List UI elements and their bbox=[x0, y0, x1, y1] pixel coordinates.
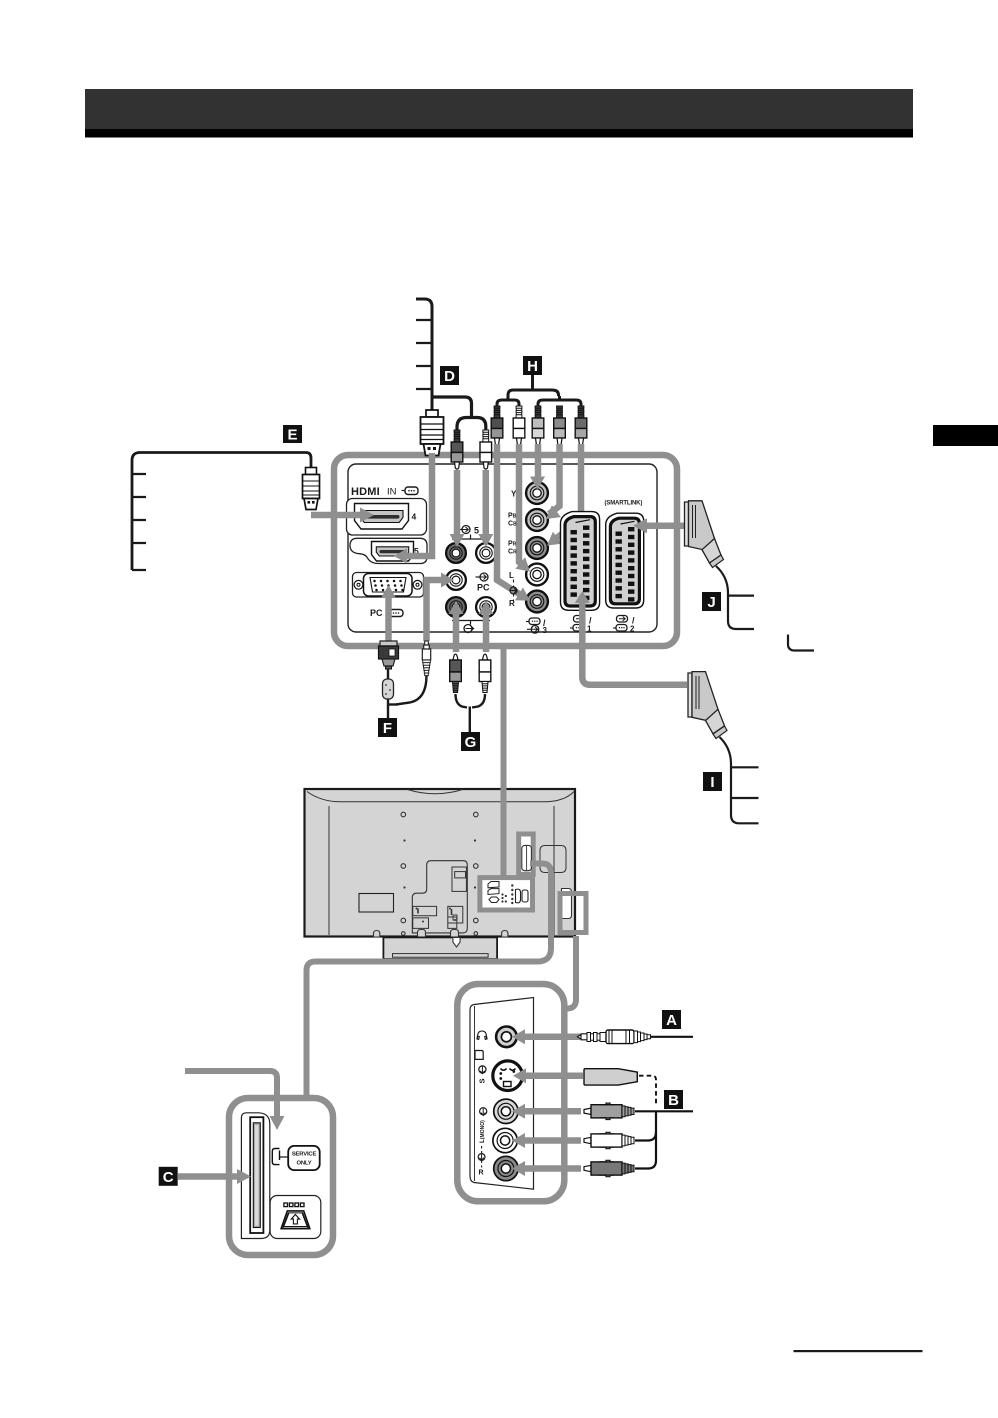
wire arrow A to headphone jack bbox=[512, 1029, 580, 1044]
svg-text:C: C bbox=[163, 1169, 174, 1186]
wire arrow F audio to PC audio jack bbox=[427, 573, 455, 642]
component plug Pb (H) bbox=[554, 406, 566, 445]
label D bbox=[440, 366, 459, 385]
audio out jack white bbox=[476, 597, 496, 617]
audio out jack dark bbox=[446, 597, 466, 617]
audio out label bbox=[452, 621, 490, 633]
video plug B yellow bbox=[584, 1103, 693, 1132]
side panel face bbox=[470, 998, 534, 1190]
AV3 label bbox=[526, 618, 548, 635]
svg-text:Y: Y bbox=[511, 490, 517, 499]
wire arrow D to HDMI5 bbox=[394, 453, 432, 564]
wire flap to side panel bbox=[564, 936, 576, 1009]
TV rear body bbox=[305, 789, 576, 937]
G cable stem bbox=[469, 707, 471, 733]
wire arrow G white plug to out jack bbox=[479, 601, 494, 652]
label C bbox=[159, 1167, 178, 1186]
svg-text:L: L bbox=[509, 571, 514, 580]
component video Pr jack bbox=[526, 537, 548, 559]
component video Y jack bbox=[526, 482, 548, 504]
svg-text:PB: PB bbox=[508, 513, 517, 520]
label E bbox=[283, 425, 302, 444]
wire TV to CAM module bbox=[307, 864, 552, 1099]
VGA cable plug F bbox=[379, 641, 399, 718]
side panel frame bbox=[457, 984, 564, 1201]
svg-text:F: F bbox=[383, 720, 392, 737]
PC IN label bbox=[370, 608, 403, 618]
headphone jack bbox=[496, 1027, 517, 1048]
PC audio jack bbox=[446, 570, 466, 590]
video in jack bbox=[494, 1099, 518, 1123]
video in label bbox=[480, 1108, 487, 1116]
wire H plug2 to L jack bbox=[515, 444, 530, 572]
headphone plug A bbox=[578, 1030, 694, 1044]
svg-text:5: 5 bbox=[474, 526, 479, 536]
PC IN VGA connector bbox=[353, 573, 424, 598]
page edge index tab bbox=[933, 425, 998, 446]
wire H plug3 to Y jack bbox=[530, 444, 545, 490]
TV AV callout box bbox=[480, 878, 533, 910]
component plug L white (H) bbox=[513, 406, 525, 445]
I cable and bundle ticks bbox=[720, 737, 759, 823]
D cable branch wire bbox=[432, 397, 486, 430]
component plug Y (H) bbox=[532, 406, 544, 445]
audio R plug B red bbox=[584, 1132, 656, 1177]
L MONO label bbox=[478, 1120, 486, 1177]
HDMI port 4 connector bbox=[355, 504, 417, 530]
SCART 2 label bbox=[613, 616, 635, 634]
HDMI plug E bbox=[303, 453, 320, 510]
J cable and bundle ticks bbox=[716, 566, 754, 629]
HDMI port 5 outline bbox=[350, 538, 427, 563]
wire arrow E to HDMI4 bbox=[311, 508, 374, 523]
audio L jack bbox=[493, 1128, 517, 1152]
svg-text:ONLY: ONLY bbox=[296, 1161, 311, 1167]
SCART 1 socket bbox=[561, 512, 600, 611]
wire H plug5 to Pr jack bbox=[547, 444, 581, 546]
HDMI plug D bbox=[421, 410, 444, 456]
audio in 5 label bbox=[452, 526, 490, 540]
label J bbox=[702, 592, 721, 611]
TV side panel flap callout bbox=[560, 889, 586, 933]
audio L plug B white bbox=[584, 1132, 656, 1149]
wire arrow white plug to jack bbox=[478, 470, 493, 547]
audio in 5 jack dark bbox=[446, 543, 466, 563]
svg-text:A: A bbox=[666, 1012, 677, 1029]
label G bbox=[461, 732, 480, 751]
svg-text:PC: PC bbox=[370, 608, 383, 618]
svg-text:IN: IN bbox=[387, 487, 397, 498]
SCART 2 socket bbox=[606, 513, 644, 608]
CAM module frame bbox=[229, 1098, 333, 1255]
audio plug dark (D pair) bbox=[451, 430, 463, 469]
wire arrow dark plug to jack bbox=[450, 470, 465, 547]
CAM card slot bbox=[250, 1117, 263, 1233]
wire arrow video plug to jack bbox=[512, 1104, 581, 1119]
H cable bracket wires bbox=[497, 375, 581, 406]
component labels bbox=[508, 490, 517, 609]
audio out plug white G bbox=[472, 654, 491, 707]
label A bbox=[662, 1010, 681, 1029]
label B bbox=[664, 1090, 683, 1109]
wire arrow C to card slot bbox=[178, 1169, 251, 1184]
HDMI IN label bbox=[351, 486, 418, 498]
SMARTLINK label bbox=[605, 501, 643, 507]
wire arrow S video plug to jack bbox=[513, 1068, 583, 1083]
svg-text:D: D bbox=[444, 368, 455, 385]
CAM eject icon bbox=[270, 1196, 321, 1239]
svg-text:S: S bbox=[478, 1078, 487, 1083]
wire panel to TV AV box bbox=[501, 648, 507, 878]
label I bbox=[703, 772, 722, 791]
cable bundle bracket E bbox=[132, 453, 306, 571]
audio plug white (D pair) bbox=[480, 430, 492, 469]
TV mount bracket plate bbox=[412, 861, 467, 933]
svg-text:3: 3 bbox=[543, 626, 548, 635]
wire arrow J to SCART2 bbox=[633, 518, 684, 533]
header title bar bbox=[85, 89, 913, 138]
wire leader into CAM slot cover bbox=[185, 1071, 285, 1130]
svg-text:B: B bbox=[668, 1092, 679, 1109]
card icon bbox=[475, 1051, 483, 1060]
wire H plug4 to Pb jack bbox=[546, 444, 561, 519]
CAM eject clip bbox=[272, 1149, 279, 1165]
HDMI port 4 outline bbox=[347, 499, 427, 536]
HDMI port 5 connector bbox=[372, 542, 420, 562]
headphone icon bbox=[477, 1031, 487, 1039]
wire arrow G dark plug to out jack bbox=[449, 601, 464, 652]
wire arrow audio L plug to jack bbox=[512, 1133, 581, 1148]
TV stand foot tabs bbox=[374, 930, 508, 938]
bottom right rule line bbox=[794, 1350, 923, 1352]
component audio L jack bbox=[526, 564, 548, 586]
svg-text:HDMI: HDMI bbox=[351, 486, 380, 498]
svg-text:I: I bbox=[710, 774, 714, 791]
TV label plate bbox=[359, 894, 394, 913]
TV stand base bbox=[383, 937, 497, 959]
svg-text:2: 2 bbox=[630, 625, 635, 634]
component plug R (H) bbox=[491, 406, 503, 445]
svg-text:SERVICE: SERVICE bbox=[292, 1152, 317, 1158]
svg-text:H: H bbox=[527, 358, 538, 375]
component audio R jack bbox=[526, 591, 548, 613]
svg-text:L(MONO): L(MONO) bbox=[479, 1120, 486, 1143]
svg-text:(SMARTLINK): (SMARTLINK) bbox=[605, 501, 643, 507]
svg-text:E: E bbox=[287, 427, 297, 444]
PC audio label bbox=[476, 573, 491, 593]
S video jack bbox=[493, 1061, 523, 1091]
rear panel inner plate bbox=[348, 464, 657, 632]
component plug Pr (H) bbox=[575, 406, 587, 445]
SCART plug I bbox=[688, 672, 727, 739]
label H bbox=[523, 356, 542, 375]
wire SCART1 to plug I bbox=[575, 591, 687, 685]
audio R jack bbox=[494, 1156, 518, 1180]
svg-text:CB: CB bbox=[508, 521, 517, 528]
CAM cover plate bbox=[241, 1113, 269, 1239]
svg-text:PR: PR bbox=[508, 541, 517, 548]
svg-text:J: J bbox=[707, 594, 715, 611]
svg-text:R: R bbox=[479, 1170, 484, 1177]
corner bracket wire bbox=[788, 635, 814, 651]
SCART plug J bbox=[685, 501, 724, 568]
SERVICE ONLY tag bbox=[280, 1146, 320, 1170]
svg-text:G: G bbox=[465, 734, 477, 751]
wire arrow audio R plug to jack bbox=[512, 1161, 581, 1176]
svg-text:R: R bbox=[509, 599, 515, 608]
svg-text:PC: PC bbox=[477, 583, 490, 593]
svg-text:CR: CR bbox=[508, 549, 517, 556]
audio minijack plug F bbox=[388, 641, 431, 705]
SCART 1 label bbox=[570, 616, 592, 634]
TV side AV holder callout bbox=[519, 834, 566, 874]
wire arrow F VGA to PC IN bbox=[381, 585, 396, 641]
S video label bbox=[478, 1066, 487, 1084]
S video plug B bbox=[584, 1069, 656, 1106]
svg-text:4: 4 bbox=[412, 512, 417, 522]
svg-text:1: 1 bbox=[587, 625, 592, 634]
audio out plug dark G bbox=[450, 654, 467, 707]
component video Pb jack bbox=[526, 509, 548, 531]
cable bundle bracket D bbox=[416, 299, 432, 410]
rear panel outer frame bbox=[334, 455, 677, 646]
wire H plug1 to R jack bbox=[497, 444, 530, 601]
TV screw holes bbox=[401, 812, 478, 935]
audio in 5 jack white bbox=[476, 543, 496, 563]
label F bbox=[378, 718, 397, 737]
